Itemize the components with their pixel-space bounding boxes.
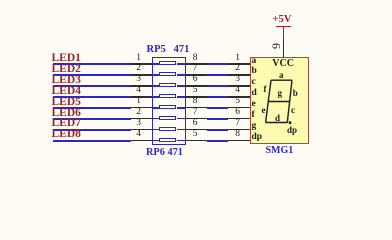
net label LED2 [52, 64, 81, 76]
pin name d [252, 89, 257, 99]
pin number 3 (display) [216, 75, 240, 85]
wire pack to display row 2 [207, 74, 229, 76]
pin number 4 (pack left) [117, 130, 141, 140]
resistor element row 1 [153, 63, 159, 65]
pin stub RP left pin 4 [131, 96, 154, 98]
pin number 1 (pack left) [117, 97, 141, 107]
pin stub SMG1 pin 5 [228, 107, 250, 109]
pin number 7 (pack right) [193, 108, 198, 118]
designator RP6 471 [146, 148, 183, 158]
segment label dp [287, 126, 297, 135]
wire pack to display row 3 [207, 85, 229, 87]
wire pack to display row 8 [207, 140, 229, 142]
pin number 3 (pack left) [117, 119, 141, 129]
pin stub SMG1 pin 8 [228, 140, 250, 142]
pin name b [252, 67, 257, 77]
resistor element row 8 [153, 140, 159, 142]
pin name f [252, 111, 255, 121]
pin stub SMG1 pin 7 [228, 129, 250, 131]
pin number 5 (pack right) [193, 130, 198, 140]
pin stub RP right pin 6 [186, 85, 207, 87]
wire pack to display row 7 [207, 129, 229, 131]
pin stub RP left pin 2 [131, 118, 154, 120]
net label LED7 [52, 118, 81, 130]
wire LED6 horizontal [53, 118, 131, 120]
pin number 4 (pack left) [117, 86, 141, 96]
segment label d [275, 114, 280, 123]
net label LED3 [52, 75, 81, 87]
wire LED4 horizontal [53, 96, 131, 98]
pin number 8 (pack right) [193, 97, 198, 107]
wire LED8 horizontal [53, 140, 131, 142]
pin number 9 (VCC pin, rotated) [270, 43, 282, 49]
net label LED5 [52, 97, 81, 109]
pin name g [252, 122, 257, 132]
resistor element row 2 [153, 74, 159, 76]
wire VCC vertical [283, 38, 285, 58]
pin stub RP left pin 3 [131, 85, 154, 87]
net label LED4 [52, 86, 81, 98]
net label LED8 [52, 129, 81, 141]
resistor element row 6 [153, 118, 159, 120]
pin stub SMG1 pin 4 [228, 96, 250, 98]
pin number 8 (display) [216, 130, 240, 140]
pin stub RP left pin 3 [131, 129, 154, 131]
wire pack to display row 6 [207, 118, 229, 120]
wire pack to display row 4 [207, 96, 229, 98]
pin stub RP left pin 4 [131, 140, 154, 142]
pin number 2 (display) [216, 64, 240, 74]
pin number 1 (pack left) [117, 54, 141, 64]
pin stub RP left pin 1 [131, 63, 154, 65]
pin stub RP right pin 7 [186, 74, 207, 76]
designator SMG1 [266, 146, 294, 156]
pin stub RP right pin 8 [186, 107, 207, 109]
wire LED7 horizontal [53, 129, 131, 131]
segment label b [293, 89, 298, 98]
pin number 6 (pack right) [193, 119, 198, 129]
pin stub RP left pin 2 [131, 74, 154, 76]
pin number 7 (display) [216, 119, 240, 129]
pin stub RP right pin 5 [186, 140, 207, 142]
wire LED1 horizontal [53, 63, 131, 65]
pin stub RP right pin 7 [186, 118, 207, 120]
pin stub SMG1 pin 1 [228, 63, 250, 65]
pin number 6 (display) [216, 108, 240, 118]
pin number 4 (display) [216, 86, 240, 96]
pin name e [252, 100, 256, 110]
designator RP5 471 [147, 45, 190, 56]
segment label f [264, 85, 267, 94]
segment label a [279, 71, 284, 80]
label VCC [272, 59, 294, 69]
segment label g [278, 89, 283, 98]
pin number 8 (pack right) [193, 54, 198, 64]
segment label e [262, 106, 266, 115]
pin name a [252, 57, 257, 67]
pin stub RP right pin 6 [186, 129, 207, 131]
pin number 3 (pack left) [117, 75, 141, 85]
7-segment display SMG1 body [250, 57, 309, 144]
resistor element row 5 [153, 107, 159, 109]
pin stub SMG1 pin 2 [228, 74, 250, 76]
pin number 7 (pack right) [193, 64, 198, 74]
pin number 2 (pack left) [117, 108, 141, 118]
pin stub RP right pin 8 [186, 63, 207, 65]
net label LED6 [52, 108, 81, 120]
pin number 6 (pack right) [193, 75, 198, 85]
resistor element row 4 [153, 96, 159, 98]
resistor element row 7 [153, 129, 159, 131]
wire LED3 horizontal [53, 85, 131, 87]
pin stub RP left pin 1 [131, 107, 154, 109]
resistor pack RP5/RP6 outline [152, 57, 186, 145]
pin number 2 (pack left) [117, 64, 141, 74]
wire LED2 horizontal [53, 74, 131, 76]
segment label c [291, 106, 295, 115]
pin stub SMG1 pin 3 [228, 85, 250, 87]
net label LED1 [52, 53, 81, 65]
pin name dp [252, 133, 263, 143]
7-segment digit glyph [0, 0, 392, 186]
wire LED5 horizontal [53, 107, 131, 109]
pin stub SMG1 pin 6 [228, 118, 250, 120]
wire pack to display row 5 [207, 107, 229, 109]
wire pack to display row 1 [207, 63, 229, 65]
power stem (red) [283, 27, 285, 39]
resistor element row 3 [153, 85, 159, 87]
pin name c [252, 78, 256, 88]
power bar symbol [276, 26, 291, 28]
pin number 5 (pack right) [193, 86, 198, 96]
power +5V label [272, 14, 291, 25]
pin stub RP right pin 5 [186, 96, 207, 98]
pin number 5 (display) [216, 97, 240, 107]
pin number 1 (display) [216, 54, 240, 64]
